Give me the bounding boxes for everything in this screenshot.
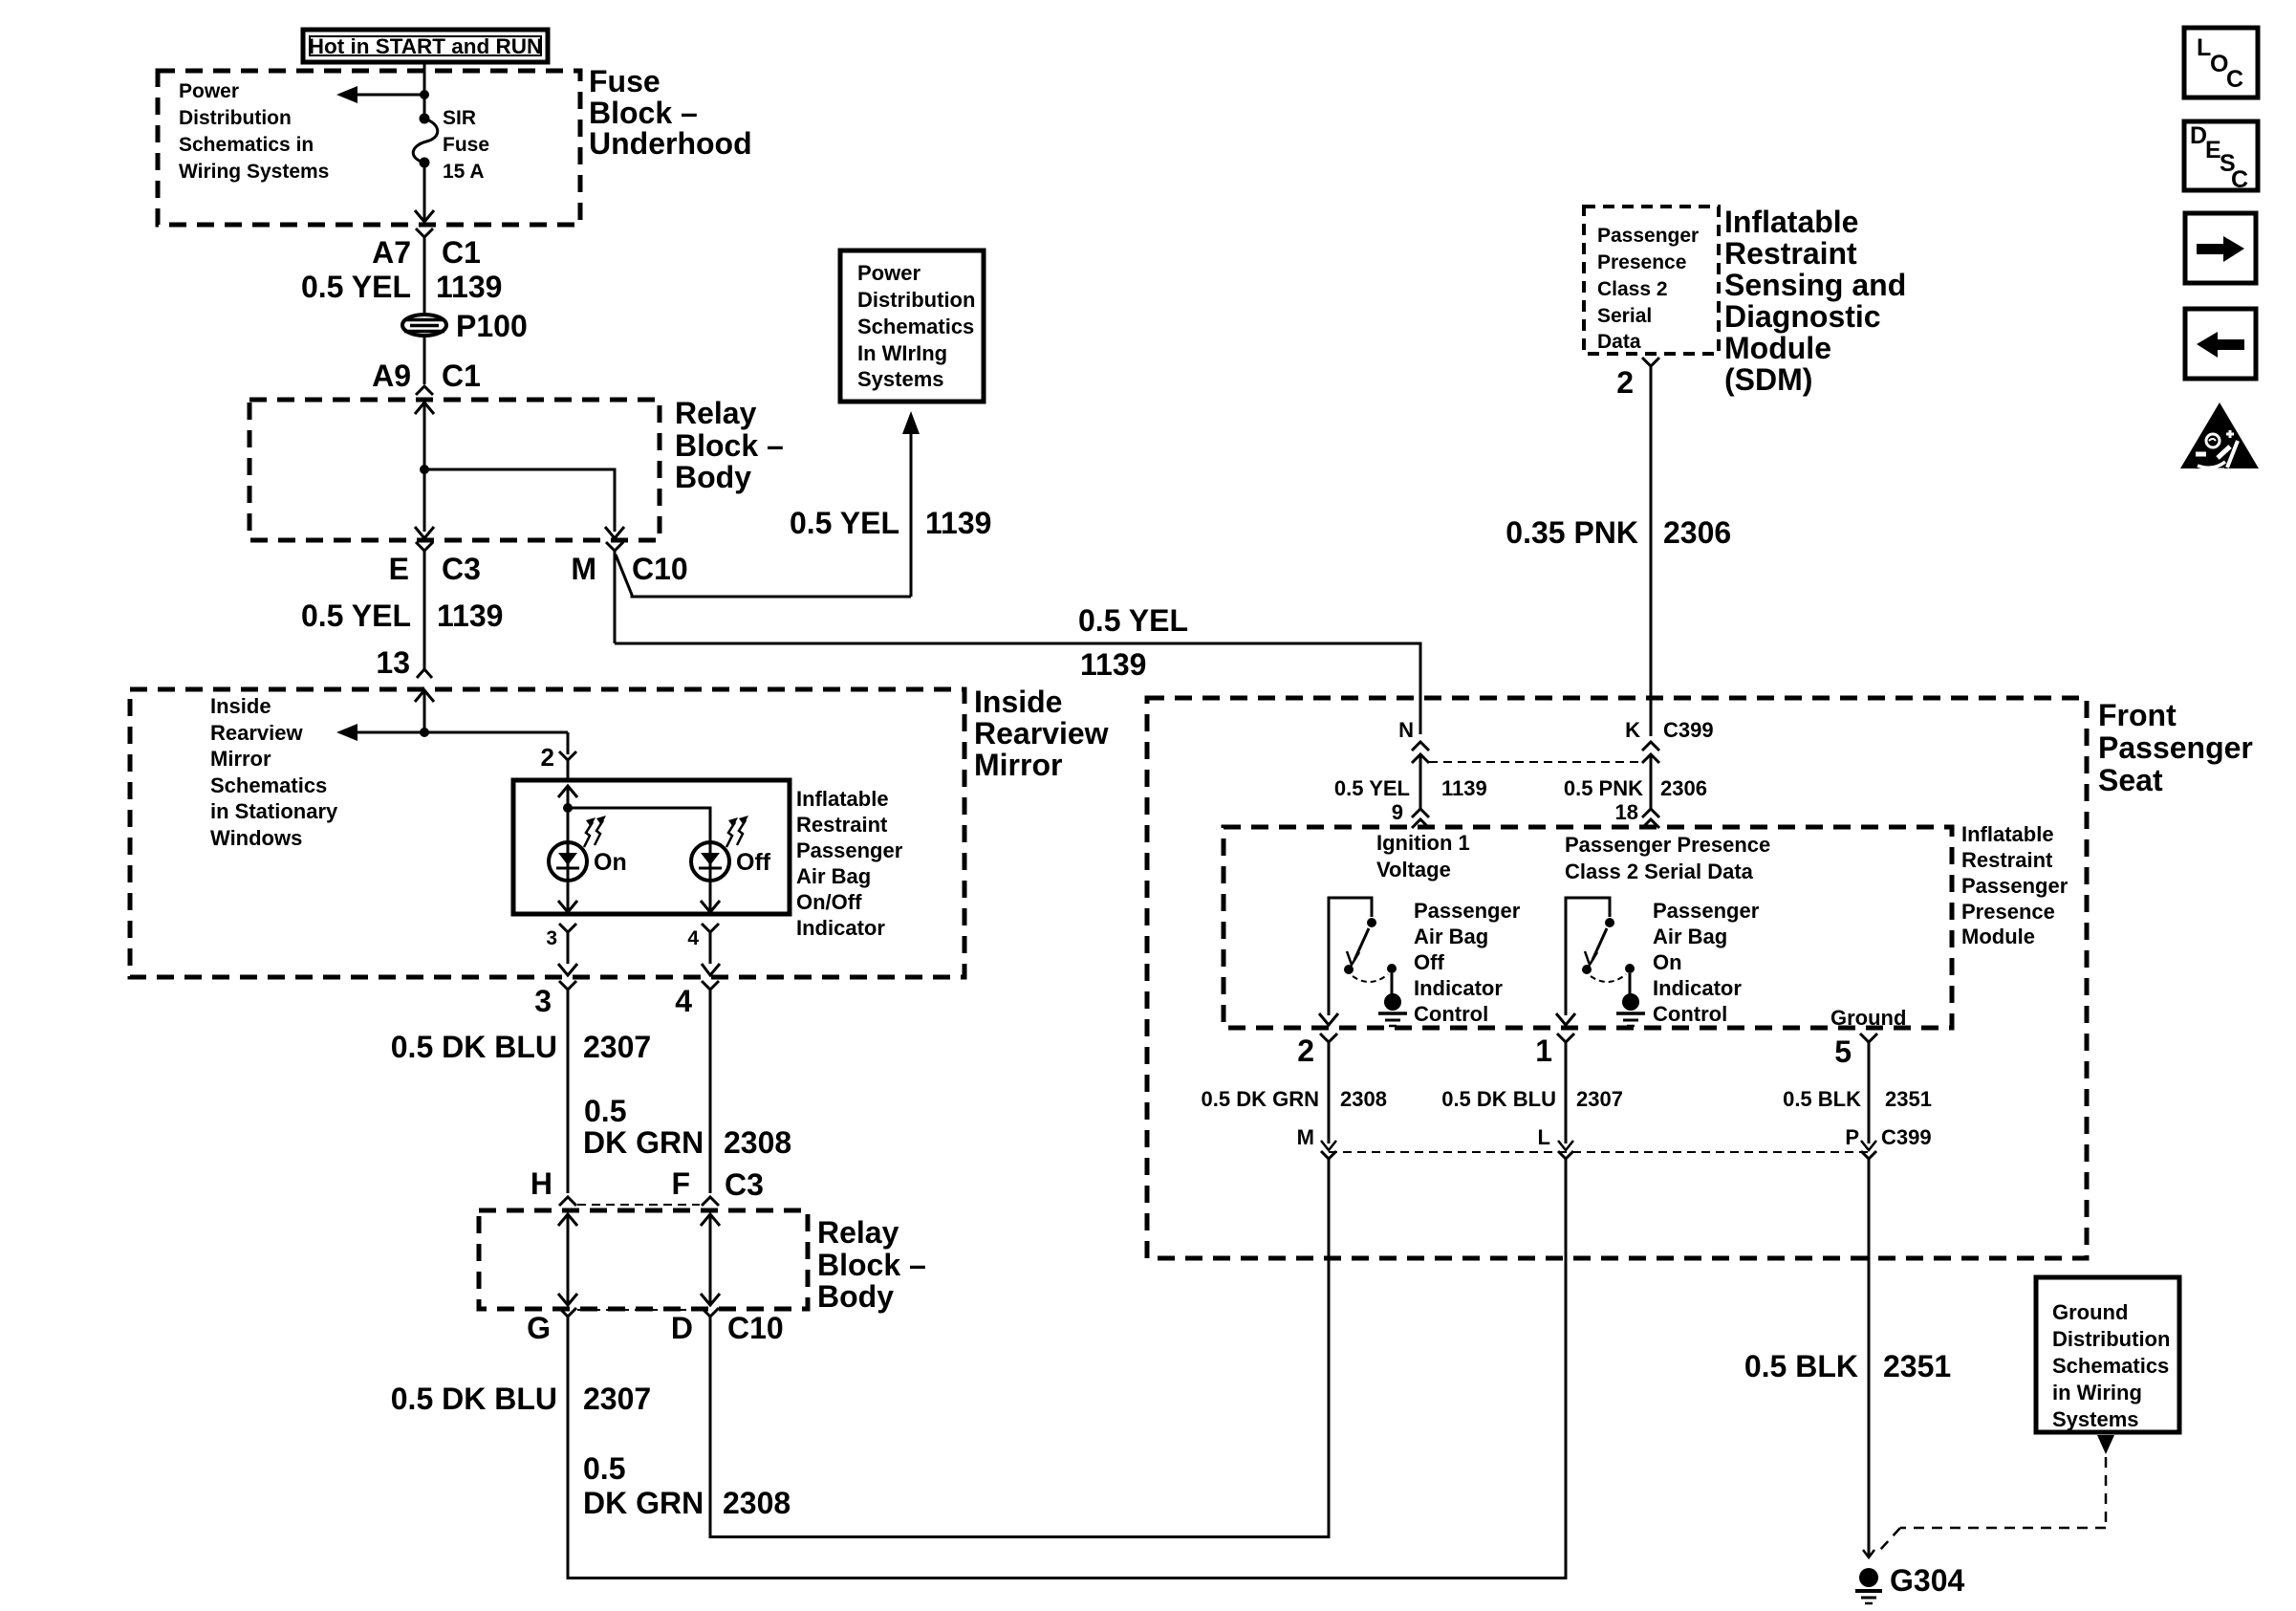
switch SW2 passenger air bag on: [1556, 898, 1645, 1026]
svg-text:0.5: 0.5: [584, 1094, 626, 1128]
svg-text:Underhood: Underhood: [589, 126, 752, 161]
wire G to L bottom run: [568, 1577, 1568, 1579]
svg-text:Hot in START and RUN: Hot in START and RUN: [309, 34, 543, 58]
connector C10 pin D chevron: [702, 1308, 719, 1538]
svg-text:Inflatable: Inflatable: [796, 787, 889, 811]
svg-text:In WIrIng: In WIrIng: [857, 341, 947, 365]
label Fuse Block - Underhood: [589, 64, 752, 161]
connector C1 pin A9 chevron: [416, 386, 433, 395]
connector module pin 1 chevron: [1557, 1034, 1574, 1143]
connector SDM pin 2 chevron: [1642, 358, 1659, 736]
svg-text:Air Bag: Air Bag: [1414, 925, 1488, 948]
svg-text:0.5 YEL: 0.5 YEL: [1334, 776, 1410, 800]
front passenger seat dashed box: [1147, 698, 2087, 1258]
inside rearview mirror dashed box: [130, 689, 964, 977]
svg-text:4: 4: [687, 927, 699, 949]
svg-text:Fuse: Fuse: [443, 134, 489, 156]
label 0.5 PNK 2306 at K: [1564, 776, 1707, 800]
svg-text:G304: G304: [1890, 1563, 1964, 1598]
label 0.5 YEL 1139 at power dist: [790, 506, 991, 540]
svg-text:Passenger: Passenger: [2098, 730, 2253, 765]
svg-text:3: 3: [546, 927, 557, 949]
svg-text:Seat: Seat: [2098, 763, 2163, 797]
svg-text:G: G: [527, 1311, 551, 1345]
svg-text:Distribution: Distribution: [2052, 1327, 2170, 1351]
wire down to indicator pin 2: [567, 732, 570, 754]
svg-text:Class 2 Serial Data: Class 2 Serial Data: [1565, 860, 1754, 883]
label Inside Rearview Mirror: [974, 685, 1109, 782]
svg-text:SIR: SIR: [443, 107, 476, 129]
svg-text:Schematics: Schematics: [210, 773, 327, 797]
svg-text:DK GRN: DK GRN: [583, 1486, 704, 1520]
label 0.35 PNK 2306: [1505, 515, 1731, 550]
svg-text:Inflatable: Inflatable: [1961, 822, 2054, 846]
connector C10 dashed line: [577, 1309, 700, 1311]
svg-text:5: 5: [1834, 1034, 1852, 1069]
label module Inflatable Restraint Passenger Presence Module: [1961, 822, 2069, 948]
svg-text:Inside: Inside: [210, 694, 271, 718]
icon DESC box: [2184, 121, 2258, 193]
fuse SIR 15A: [413, 107, 489, 183]
svg-text:(SDM): (SDM): [1724, 362, 1812, 397]
svg-text:Air Bag: Air Bag: [796, 864, 871, 888]
wire into mirror box with up arrow: [415, 690, 434, 732]
svg-text:Passenger: Passenger: [1961, 874, 2069, 898]
svg-text:K: K: [1625, 718, 1640, 742]
wire arrow P into C399: [1861, 1141, 1876, 1150]
svg-text:Air Bag: Air Bag: [1653, 925, 1727, 948]
svg-text:Presence: Presence: [1961, 900, 2055, 924]
svg-text:Voltage: Voltage: [1376, 858, 1451, 882]
icon arrow left box: [2185, 309, 2256, 379]
label A9 C1: [372, 359, 481, 393]
connector module pin 9 double chevron: [1412, 809, 1429, 828]
svg-text:2: 2: [1616, 365, 1634, 400]
svg-text:1139: 1139: [1080, 647, 1146, 682]
label Passenger Presence Class 2 Serial Data: [1565, 833, 1770, 883]
label Relay Block - Body 2: [817, 1215, 926, 1314]
indicator solid box: [513, 780, 790, 914]
wire through relay 2 right: [701, 1214, 720, 1305]
wire to off led: [568, 808, 710, 842]
svg-text:DK GRN: DK GRN: [583, 1125, 704, 1160]
wire into relay block with up arrow: [415, 403, 434, 469]
inflatable restraint passenger presence module dashed box: [1224, 827, 1952, 1028]
svg-text:Serial: Serial: [1597, 305, 1652, 327]
wire P100 to A9: [423, 336, 426, 384]
relay block body 2 dashed box: [479, 1210, 808, 1309]
svg-text:Rearview: Rearview: [974, 716, 1109, 751]
connector C10 pin G chevron: [559, 1308, 576, 1579]
node junction C: [420, 728, 429, 737]
arrow below ground distribution box: [2097, 1435, 2114, 1454]
switch SW1 passenger air bag off: [1319, 898, 1407, 1026]
svg-text:2308: 2308: [1340, 1087, 1387, 1111]
icon warning triangle child seat: [2180, 403, 2259, 469]
svg-text:0.5 YEL: 0.5 YEL: [301, 270, 411, 304]
svg-text:Passenger: Passenger: [1653, 899, 1760, 923]
label M L P C399: [1297, 1125, 1932, 1149]
svg-text:Systems: Systems: [2052, 1407, 2139, 1431]
svg-text:Power: Power: [179, 80, 239, 102]
svg-text:2351: 2351: [1885, 1087, 1932, 1111]
connector module pin 5 chevron: [1860, 1034, 1877, 1143]
svg-text:Block –: Block –: [675, 428, 784, 463]
svg-text:0.5 YEL: 0.5 YEL: [790, 506, 899, 540]
svg-text:Ground: Ground: [1830, 1006, 1906, 1030]
svg-text:L: L: [2197, 34, 2211, 61]
svg-text:L: L: [1538, 1125, 1550, 1149]
svg-text:Restraint: Restraint: [1724, 236, 1857, 271]
svg-text:Off: Off: [736, 849, 771, 876]
svg-text:1139: 1139: [925, 506, 991, 540]
svg-text:C399: C399: [1663, 718, 1714, 742]
label 0.5 DK GRN 2308 lower: [583, 1451, 791, 1520]
wire 3 exits mirror box arrow: [558, 964, 577, 975]
wire up to power distribution box with arrow: [902, 411, 920, 597]
svg-text:Module: Module: [1961, 925, 2035, 948]
svg-text:P: P: [1845, 1125, 1859, 1149]
svg-text:C3: C3: [442, 552, 481, 586]
node junction D: [563, 803, 573, 813]
svg-text:0.5 YEL: 0.5 YEL: [1078, 603, 1188, 638]
label Passenger Air Bag On Indicator Control: [1653, 899, 1760, 1026]
svg-text:3: 3: [534, 984, 552, 1018]
svg-text:Presence: Presence: [1597, 251, 1686, 273]
node Hot in START and RUN: [303, 30, 548, 62]
svg-text:Diagnostic: Diagnostic: [1724, 299, 1881, 334]
svg-text:Block –: Block –: [817, 1248, 926, 1282]
connector C399 dashed line lower: [1329, 1151, 1869, 1153]
label G D C10: [527, 1311, 784, 1345]
svg-text:Module: Module: [1724, 331, 1831, 365]
svg-text:C399: C399: [1881, 1125, 1932, 1149]
svg-text:Passenger: Passenger: [1597, 225, 1699, 247]
connector C1 pin A7 chevron: [416, 229, 433, 316]
svg-text:N: N: [1398, 718, 1414, 742]
svg-text:0.5: 0.5: [583, 1451, 625, 1486]
passenger presence class 2 serial data dashed box: [1584, 207, 1719, 354]
svg-text:M: M: [571, 552, 596, 586]
node junction B: [420, 465, 429, 474]
svg-text:Passenger Presence: Passenger Presence: [1565, 833, 1770, 857]
svg-text:0.5 PNK: 0.5 PNK: [1564, 776, 1643, 800]
icon arrow right box: [2185, 213, 2256, 283]
svg-text:2307: 2307: [1576, 1087, 1623, 1111]
svg-text:Rearview: Rearview: [210, 721, 304, 745]
svg-text:Mirror: Mirror: [210, 747, 271, 771]
wire into indicator with up arrow: [558, 786, 577, 842]
svg-text:1139: 1139: [1441, 776, 1487, 800]
svg-text:C3: C3: [725, 1167, 764, 1202]
svg-text:Body: Body: [675, 460, 751, 494]
svg-text:H: H: [531, 1166, 552, 1201]
connector C399 pin M chevron below: [1321, 1151, 1336, 1538]
label Relay Block - Body: [675, 396, 784, 494]
svg-text:On: On: [1653, 950, 1682, 974]
wire junction to fuse: [423, 95, 426, 116]
svg-text:Schematics in: Schematics in: [179, 134, 314, 156]
svg-text:Relay: Relay: [817, 1215, 899, 1250]
wire through relay 2 left: [558, 1214, 577, 1305]
icon LOC box: [2184, 28, 2258, 98]
svg-text:On: On: [594, 849, 627, 876]
connector pin 3 chevron inner: [559, 924, 576, 964]
label 0.5 DK GRN 2308: [583, 1094, 791, 1160]
wire fuse to box bottom with arrow: [415, 163, 434, 222]
svg-text:2307: 2307: [583, 1030, 651, 1064]
svg-text:Data: Data: [1597, 331, 1641, 353]
wire arrow to power distribution schematics: [336, 86, 424, 103]
connector pin 4 chevron below box: [702, 981, 719, 1193]
wire branch to M: [424, 469, 624, 538]
svg-text:Ignition 1: Ignition 1: [1376, 831, 1470, 855]
label 0.5 YEL 1139 at N: [1334, 776, 1487, 800]
label M C10: [571, 552, 687, 586]
splice pass-through P100: [402, 309, 528, 343]
wire from Hot box to junction: [423, 62, 426, 93]
label 0.5 YEL 1139 at E: [301, 599, 503, 633]
svg-text:C1: C1: [442, 359, 481, 393]
svg-text:0.5 YEL: 0.5 YEL: [301, 599, 411, 633]
connector C10 pin M chevron: [606, 542, 623, 643]
wire arrow L into C399: [1558, 1141, 1573, 1150]
svg-text:Schematics: Schematics: [857, 315, 974, 338]
svg-text:Class 2: Class 2: [1597, 278, 1668, 300]
label Inflatable Restraint Sensing and Diagnostic Module SDM: [1724, 205, 1906, 397]
svg-text:Schematics: Schematics: [2052, 1354, 2169, 1378]
svg-text:Restraint: Restraint: [796, 813, 888, 837]
wire diagonal from M to power dist branch: [616, 555, 911, 597]
svg-text:2: 2: [1297, 1034, 1314, 1068]
connector C399 dashed link: [1429, 761, 1642, 763]
label 0.5 BLK 2351 lower: [1744, 1349, 1951, 1383]
label Inflatable Restraint Passenger Air Bag On/Off Indicator: [796, 787, 903, 940]
svg-text:Mirror: Mirror: [974, 748, 1062, 782]
led Off: [691, 842, 729, 881]
svg-text:Control: Control: [1653, 1002, 1727, 1026]
svg-text:Distribution: Distribution: [857, 288, 975, 312]
svg-text:Systems: Systems: [857, 367, 944, 391]
label K C399: [1625, 718, 1713, 742]
connector C399 pin P chevron below: [1861, 1151, 1876, 1557]
svg-text:in Wiring: in Wiring: [2052, 1381, 2142, 1404]
ground G304: [1855, 1568, 1882, 1603]
svg-text:Wiring Systems: Wiring Systems: [179, 161, 329, 183]
svg-text:0.5 DK BLU: 0.5 DK BLU: [1441, 1087, 1556, 1111]
svg-text:M: M: [1297, 1125, 1314, 1149]
svg-text:Inflatable: Inflatable: [1724, 205, 1858, 239]
connector pin 3 chevron below box: [559, 981, 576, 1193]
svg-text:2351: 2351: [1883, 1349, 1951, 1383]
svg-text:C: C: [2231, 166, 2248, 193]
svg-text:0.5 BLK: 0.5 BLK: [1744, 1349, 1858, 1383]
connector C3 dashed line: [577, 1204, 700, 1206]
svg-text:Indicator: Indicator: [796, 916, 885, 940]
connector C399 pin N double chevron: [1412, 742, 1429, 809]
svg-text:Distribution: Distribution: [179, 107, 292, 129]
led On: [549, 842, 587, 881]
svg-text:0.5 DK BLU: 0.5 DK BLU: [391, 1382, 557, 1416]
svg-text:1139: 1139: [437, 599, 503, 633]
power distribution schematics box: [840, 250, 984, 402]
label 0.5 DK BLU 2307 lower: [391, 1382, 651, 1416]
svg-text:Windows: Windows: [210, 826, 302, 850]
label 0.5 YEL 1139: [301, 270, 502, 304]
svg-text:D: D: [671, 1311, 693, 1345]
svg-text:15 A: 15 A: [443, 161, 485, 183]
svg-text:Relay: Relay: [675, 396, 757, 430]
wire arrow to mirror schematics: [336, 724, 568, 741]
connector C3 pin F chevron: [702, 1197, 719, 1206]
svg-text:0.35 PNK: 0.35 PNK: [1505, 515, 1638, 550]
connector module pin 2 chevron: [1320, 1034, 1337, 1143]
connector pin 4 chevron inner: [702, 924, 719, 964]
connector pin 2 chevron: [559, 751, 576, 780]
svg-text:9: 9: [1392, 800, 1403, 824]
svg-text:2308: 2308: [723, 1486, 791, 1520]
svg-text:Block –: Block –: [589, 96, 698, 130]
svg-text:Control: Control: [1414, 1002, 1488, 1026]
node junction A: [420, 90, 429, 99]
led On lightning arrows: [584, 816, 606, 847]
svg-text:P100: P100: [456, 309, 528, 343]
svg-text:Front: Front: [2098, 698, 2177, 732]
svg-text:Sensing and: Sensing and: [1724, 268, 1906, 302]
fuse block underhood dashed box: [158, 71, 580, 225]
relay block body dashed box: [249, 400, 660, 540]
connector C3 pin E chevron: [416, 542, 433, 669]
led Off lightning arrows: [726, 816, 748, 847]
svg-text:0.5 DK GRN: 0.5 DK GRN: [1202, 1087, 1319, 1111]
svg-text:C10: C10: [632, 552, 688, 586]
svg-text:2306: 2306: [1660, 776, 1707, 800]
svg-text:C1: C1: [442, 235, 481, 270]
connector C399 pin L chevron below: [1558, 1151, 1573, 1579]
svg-text:0.5 DK BLU: 0.5 DK BLU: [391, 1030, 557, 1064]
svg-text:18: 18: [1615, 800, 1638, 824]
svg-text:Indicator: Indicator: [1653, 976, 1742, 1000]
wire arrow at G304: [1863, 1550, 1874, 1557]
connector module pin 18 double chevron: [1642, 809, 1659, 828]
svg-text:2307: 2307: [583, 1382, 651, 1416]
svg-text:Fuse: Fuse: [589, 64, 661, 98]
svg-text:Passenger: Passenger: [1414, 899, 1521, 923]
svg-text:13: 13: [376, 645, 410, 680]
svg-text:A9: A9: [372, 359, 411, 393]
wire 4 exits mirror box arrow: [702, 964, 720, 975]
svg-text:Off: Off: [1414, 950, 1444, 974]
svg-text:1: 1: [1535, 1034, 1552, 1068]
svg-text:Restraint: Restraint: [1961, 848, 2053, 872]
connector pin 13 chevron: [417, 669, 432, 678]
wire down to E with arrow: [415, 469, 434, 538]
label Passenger Air Bag Off Indicator Control: [1414, 899, 1521, 1026]
svg-text:Inside: Inside: [974, 685, 1062, 719]
dashed route to G304: [1880, 1457, 2106, 1550]
svg-text:C10: C10: [727, 1311, 784, 1345]
ground distribution schematics box: [2036, 1277, 2179, 1432]
svg-text:in Stationary: in Stationary: [210, 799, 338, 823]
svg-text:2308: 2308: [724, 1125, 791, 1160]
connector C3 pin H chevron: [559, 1197, 576, 1206]
svg-text:2: 2: [541, 743, 554, 772]
svg-text:Passenger: Passenger: [796, 838, 903, 862]
wire led Off out with arrow: [701, 881, 720, 912]
svg-text:0.5 BLK: 0.5 BLK: [1783, 1087, 1861, 1111]
label Ignition 1 Voltage: [1376, 831, 1470, 882]
svg-text:Indicator: Indicator: [1414, 976, 1503, 1000]
wire led On out with arrow: [558, 881, 577, 912]
svg-text:On/Off: On/Off: [796, 890, 862, 914]
label E C3: [389, 552, 481, 586]
svg-text:Power: Power: [857, 261, 921, 285]
label 0.5 YEL 1139 two-line: [1078, 603, 1188, 682]
connector C399 pin K double chevron: [1642, 742, 1659, 809]
svg-text:1139: 1139: [436, 270, 502, 304]
label 0.5 DK BLU 2307: [391, 1030, 651, 1064]
svg-text:Body: Body: [817, 1279, 894, 1314]
svg-text:C: C: [2226, 66, 2243, 93]
wire D to M bottom run: [710, 1535, 1331, 1538]
label A7 C1: [372, 235, 481, 270]
svg-text:F: F: [671, 1166, 690, 1201]
wire M to N long horizontal: [615, 643, 1420, 734]
wire arrow M into C399: [1321, 1141, 1336, 1150]
svg-text:2306: 2306: [1663, 515, 1731, 550]
svg-text:A7: A7: [372, 235, 411, 270]
label 0.5 DK BLU 2307 at pin 1: [1441, 1087, 1623, 1111]
label 0.5 BLK 2351 at pin 5: [1783, 1087, 1932, 1111]
label 0.5 DK GRN 2308 at pin 2: [1202, 1087, 1387, 1111]
svg-text:Ground: Ground: [2052, 1300, 2128, 1324]
label H F C3: [531, 1166, 764, 1202]
svg-text:E: E: [389, 552, 409, 586]
svg-text:4: 4: [675, 984, 692, 1018]
label Front Passenger Seat: [2098, 698, 2253, 797]
